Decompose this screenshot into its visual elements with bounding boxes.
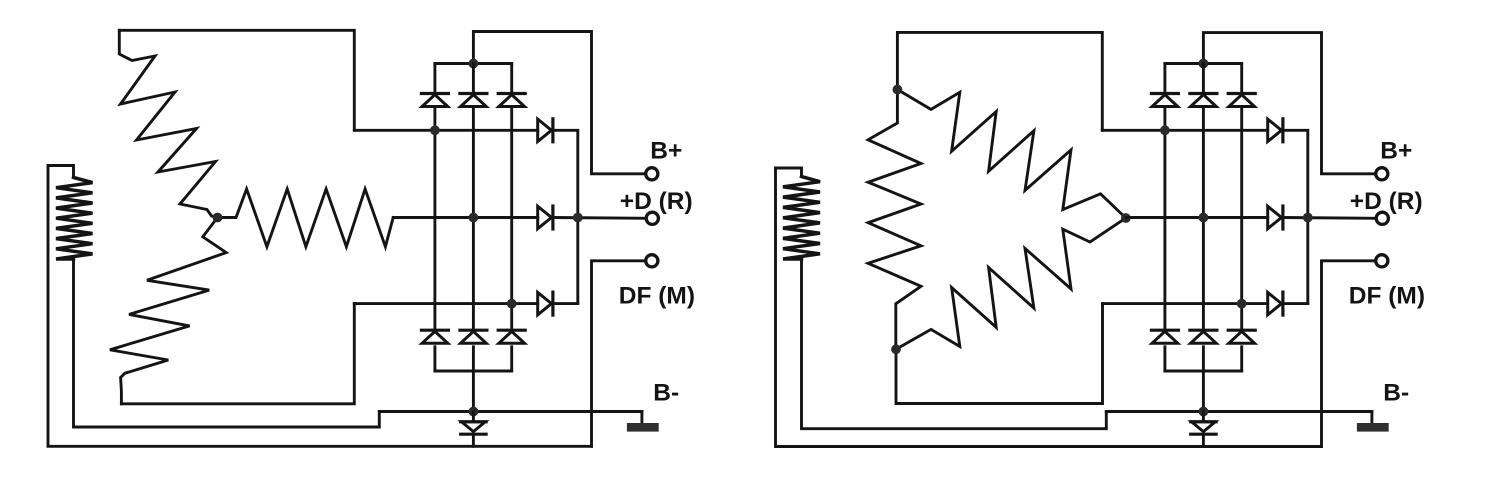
diode negative 2 (R) [1190, 330, 1217, 343]
wire DF lead (L) [592, 261, 646, 447]
wire column 3 middle (L) [510, 107, 513, 330]
svg-text:DF (M): DF (M) [1349, 283, 1425, 310]
diode positive 3 (R) [1228, 94, 1255, 107]
terminal DF (L) [646, 255, 658, 267]
wire column 3 middle (R) [1240, 107, 1243, 330]
junction phase2/col2 (R) [1199, 213, 1209, 223]
svg-text:+D (R): +D (R) [620, 188, 693, 215]
freewheel diode D7 (R) [1191, 412, 1216, 447]
wire column 3 upper (L) [510, 64, 513, 93]
label B+ (L) [650, 138, 682, 165]
terminal +D (R) [1376, 212, 1388, 224]
wire bridge-top to B+ (L) [473, 32, 646, 174]
label B+ (R) [1380, 138, 1412, 165]
wire column 2 lower (R) [1202, 347, 1205, 371]
wire column 3 lower (R) [1240, 347, 1243, 371]
wire column 2 lower (L) [472, 347, 475, 371]
wire phase3 row (L) [354, 302, 537, 305]
svg-text:DF (M): DF (M) [619, 283, 695, 310]
wire trio3 out (L) [553, 302, 578, 305]
freewheel diode D7 (L) [461, 412, 486, 447]
node delta right [1121, 213, 1131, 223]
wire DF lead (R) [1322, 261, 1376, 447]
diode negative 1 (R) [1151, 330, 1178, 343]
wire field outer / DF return (L) [48, 166, 592, 447]
rectifier top bus (R) [1165, 62, 1242, 65]
diode negative 1 (L) [421, 330, 448, 343]
stator winding phase A (delta top) [897, 90, 1125, 219]
wire field outer / DF return (R) [776, 168, 1322, 447]
svg-text:B-: B- [1383, 380, 1409, 407]
diode trio 2 (R) [1268, 206, 1283, 229]
diode positive 2 (R) [1190, 94, 1217, 107]
wire column 2 upper (L) [472, 64, 475, 93]
svg-text:+D (R): +D (R) [1350, 188, 1423, 215]
wire trio3 out (R) [1283, 302, 1308, 305]
stator winding phase B (wye middle) [218, 189, 394, 247]
label DF (M) (L) [619, 283, 695, 310]
ground lead (L) [640, 412, 643, 425]
wire delta bottom to bridge [896, 304, 1103, 404]
wire column 1 middle (L) [433, 107, 436, 330]
wire B- line (L) [379, 410, 642, 413]
junction B-/freewheel (L) [469, 407, 479, 417]
svg-text:B-: B- [653, 380, 679, 407]
wire phase2 row (L) [393, 216, 538, 219]
node delta top-left [893, 85, 903, 95]
node delta bottom-left [891, 344, 901, 354]
junction top-bus/col2 (L) [469, 59, 479, 69]
stator winding phase C (wye lower) [110, 218, 226, 404]
wire column 1 lower (R) [1163, 347, 1166, 371]
ground (L) [627, 423, 659, 432]
wire trio1 out (R) [1283, 130, 1308, 303]
wire field top (R) [776, 168, 802, 177]
wire field inner return (L) [74, 259, 380, 427]
diode trio 3 (R) [1268, 292, 1283, 315]
stator winding phase C (delta bottom) [896, 218, 1126, 349]
wire phase3 row (R) [1103, 302, 1268, 305]
junction phase3/col3 (L) [507, 299, 517, 309]
terminal DF (R) [1376, 255, 1388, 267]
wire column 2 middle (R) [1202, 107, 1205, 330]
wire field top (L) [48, 166, 74, 178]
ground (R) [1357, 423, 1389, 432]
wire trio2 out / +D lead (R) [1283, 216, 1377, 220]
wire column 2 upper (R) [1202, 64, 1205, 93]
rectifier bottom bus (R) [1165, 370, 1242, 373]
wire column 2 middle (L) [472, 107, 475, 330]
label B- (L) [653, 380, 679, 407]
wire field inner return (R) [802, 259, 1107, 429]
wire col2 to B- line (R) [1202, 371, 1205, 412]
label DF (M) (R) [1349, 283, 1425, 310]
svg-text:B+: B+ [1380, 138, 1412, 165]
ground lead (R) [1370, 412, 1373, 425]
wire column 1 upper (R) [1163, 64, 1166, 93]
diode negative 3 (L) [498, 330, 525, 343]
wire phase1 row (L) [354, 129, 537, 132]
wire B- line (R) [1106, 410, 1372, 413]
wire column 1 upper (L) [433, 64, 436, 93]
wire column 1 middle (R) [1163, 107, 1166, 330]
terminal +D (L) [646, 212, 658, 224]
terminal B+ (L) [646, 168, 658, 180]
field winding rotor coil (L) [56, 178, 93, 260]
field winding rotor coil (R) [783, 177, 820, 260]
rectifier bottom bus (L) [435, 370, 512, 373]
junction phase3/col3 (R) [1237, 299, 1247, 309]
rectifier top bus (L) [435, 62, 512, 65]
diode positive 2 (L) [460, 94, 487, 107]
wire phase C bottom [121, 304, 354, 404]
junction B-/freewheel (R) [1199, 407, 1209, 417]
wire col2 to B- line (L) [472, 371, 475, 412]
wire column 1 lower (L) [433, 347, 436, 371]
wire trio2 out / +D lead (L) [553, 216, 647, 220]
svg-text:B+: B+ [650, 138, 682, 165]
wire column 3 upper (R) [1240, 64, 1243, 93]
junction phase1/col1 (L) [430, 125, 440, 135]
diode negative 2 (L) [460, 330, 487, 343]
node wye neutral [213, 213, 223, 223]
diode trio 2 (L) [538, 206, 553, 229]
terminal B+ (R) [1376, 168, 1388, 180]
junction top-bus/col2 (R) [1199, 59, 1209, 69]
stator winding phase A (wye upper) [119, 30, 217, 217]
diode positive 3 (L) [498, 94, 525, 107]
wire phase A top [119, 30, 354, 130]
wire column 3 lower (L) [510, 347, 513, 371]
diode trio 1 (L) [538, 119, 553, 142]
label +D (R) (R) [1350, 188, 1423, 215]
diode positive 1 (L) [421, 94, 448, 107]
diode negative 3 (R) [1228, 330, 1255, 343]
junction phase2/col2 (L) [469, 213, 479, 223]
label +D (R) (L) [620, 188, 693, 215]
diode positive 1 (R) [1151, 94, 1178, 107]
label B- (R) [1383, 380, 1409, 407]
diode trio 1 (R) [1268, 119, 1283, 142]
wire trio1 out (L) [553, 130, 578, 303]
stator winding phase B (delta left) [868, 90, 921, 350]
wire delta top-left to bridge [897, 32, 1102, 130]
diode trio 3 (L) [538, 292, 553, 315]
junction trio bus/+D (R) [1303, 213, 1313, 223]
wire phase2 row (R) [1126, 216, 1268, 219]
junction phase1/col1 (R) [1160, 125, 1170, 135]
wire phase1 row (R) [1102, 129, 1267, 132]
wire bridge-top to B+ (R) [1203, 33, 1376, 174]
junction trio bus/+D (L) [573, 213, 583, 223]
